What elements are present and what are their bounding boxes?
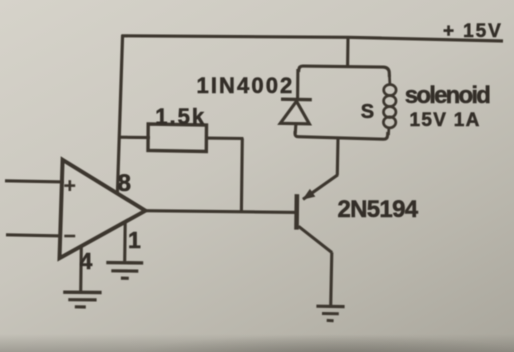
resistor 1.5k body xyxy=(148,124,207,152)
ground pin 1 xyxy=(106,263,143,279)
label pin 8 xyxy=(118,170,131,198)
wire snubber loop top xyxy=(299,66,390,77)
wire top rail horizontal xyxy=(122,36,504,41)
op-amp plus input symbol xyxy=(64,180,75,191)
transistor Q1 emitter arrow xyxy=(304,190,315,199)
op-amp minus input symbol xyxy=(64,235,75,238)
label solenoid rating 15V 1A xyxy=(410,110,481,132)
solenoid S coil xyxy=(383,75,396,135)
label transistor 2N5194 xyxy=(338,196,418,224)
wire pin 1 to ground xyxy=(123,222,127,261)
wire supply drop to snubber loop xyxy=(346,37,349,67)
wire pin 4 to ground xyxy=(79,246,83,292)
wire diode branch upper xyxy=(296,69,299,99)
wire feedback vertical to pin 8 xyxy=(117,35,122,194)
label solenoid name xyxy=(405,82,489,110)
label pin 1 xyxy=(128,227,141,254)
label diode 1IN4002 xyxy=(197,73,295,99)
label supply + 15V xyxy=(443,21,503,43)
wire diode branch lower xyxy=(294,124,298,134)
transistor Q1 base bar xyxy=(294,194,299,229)
ground transistor xyxy=(316,306,344,321)
label solenoid S xyxy=(361,101,374,124)
wire solenoid bottom to transistor emitter xyxy=(336,138,340,175)
wire resistor right lead xyxy=(207,137,244,140)
wire non-inverting input xyxy=(5,181,64,182)
wire resistor output drop vertical xyxy=(240,138,244,212)
diode 1IN4002 cathode bar xyxy=(281,97,312,101)
ground pin 4 xyxy=(63,292,101,307)
diode 1IN4002 triangle xyxy=(280,101,309,124)
wire resistor left lead xyxy=(119,136,151,140)
wire collector to ground xyxy=(331,252,332,306)
op-amp U1 triangle xyxy=(60,160,146,258)
label resistor value 1.5k xyxy=(155,104,206,130)
transistor Q1 collector lead xyxy=(299,226,333,252)
wire inverting input xyxy=(6,235,62,236)
label pin 4 xyxy=(80,248,93,275)
wire snubber loop bottom xyxy=(295,131,388,139)
transistor Q1 emitter lead xyxy=(303,175,338,200)
wire op-amp output to transistor base xyxy=(145,211,298,213)
